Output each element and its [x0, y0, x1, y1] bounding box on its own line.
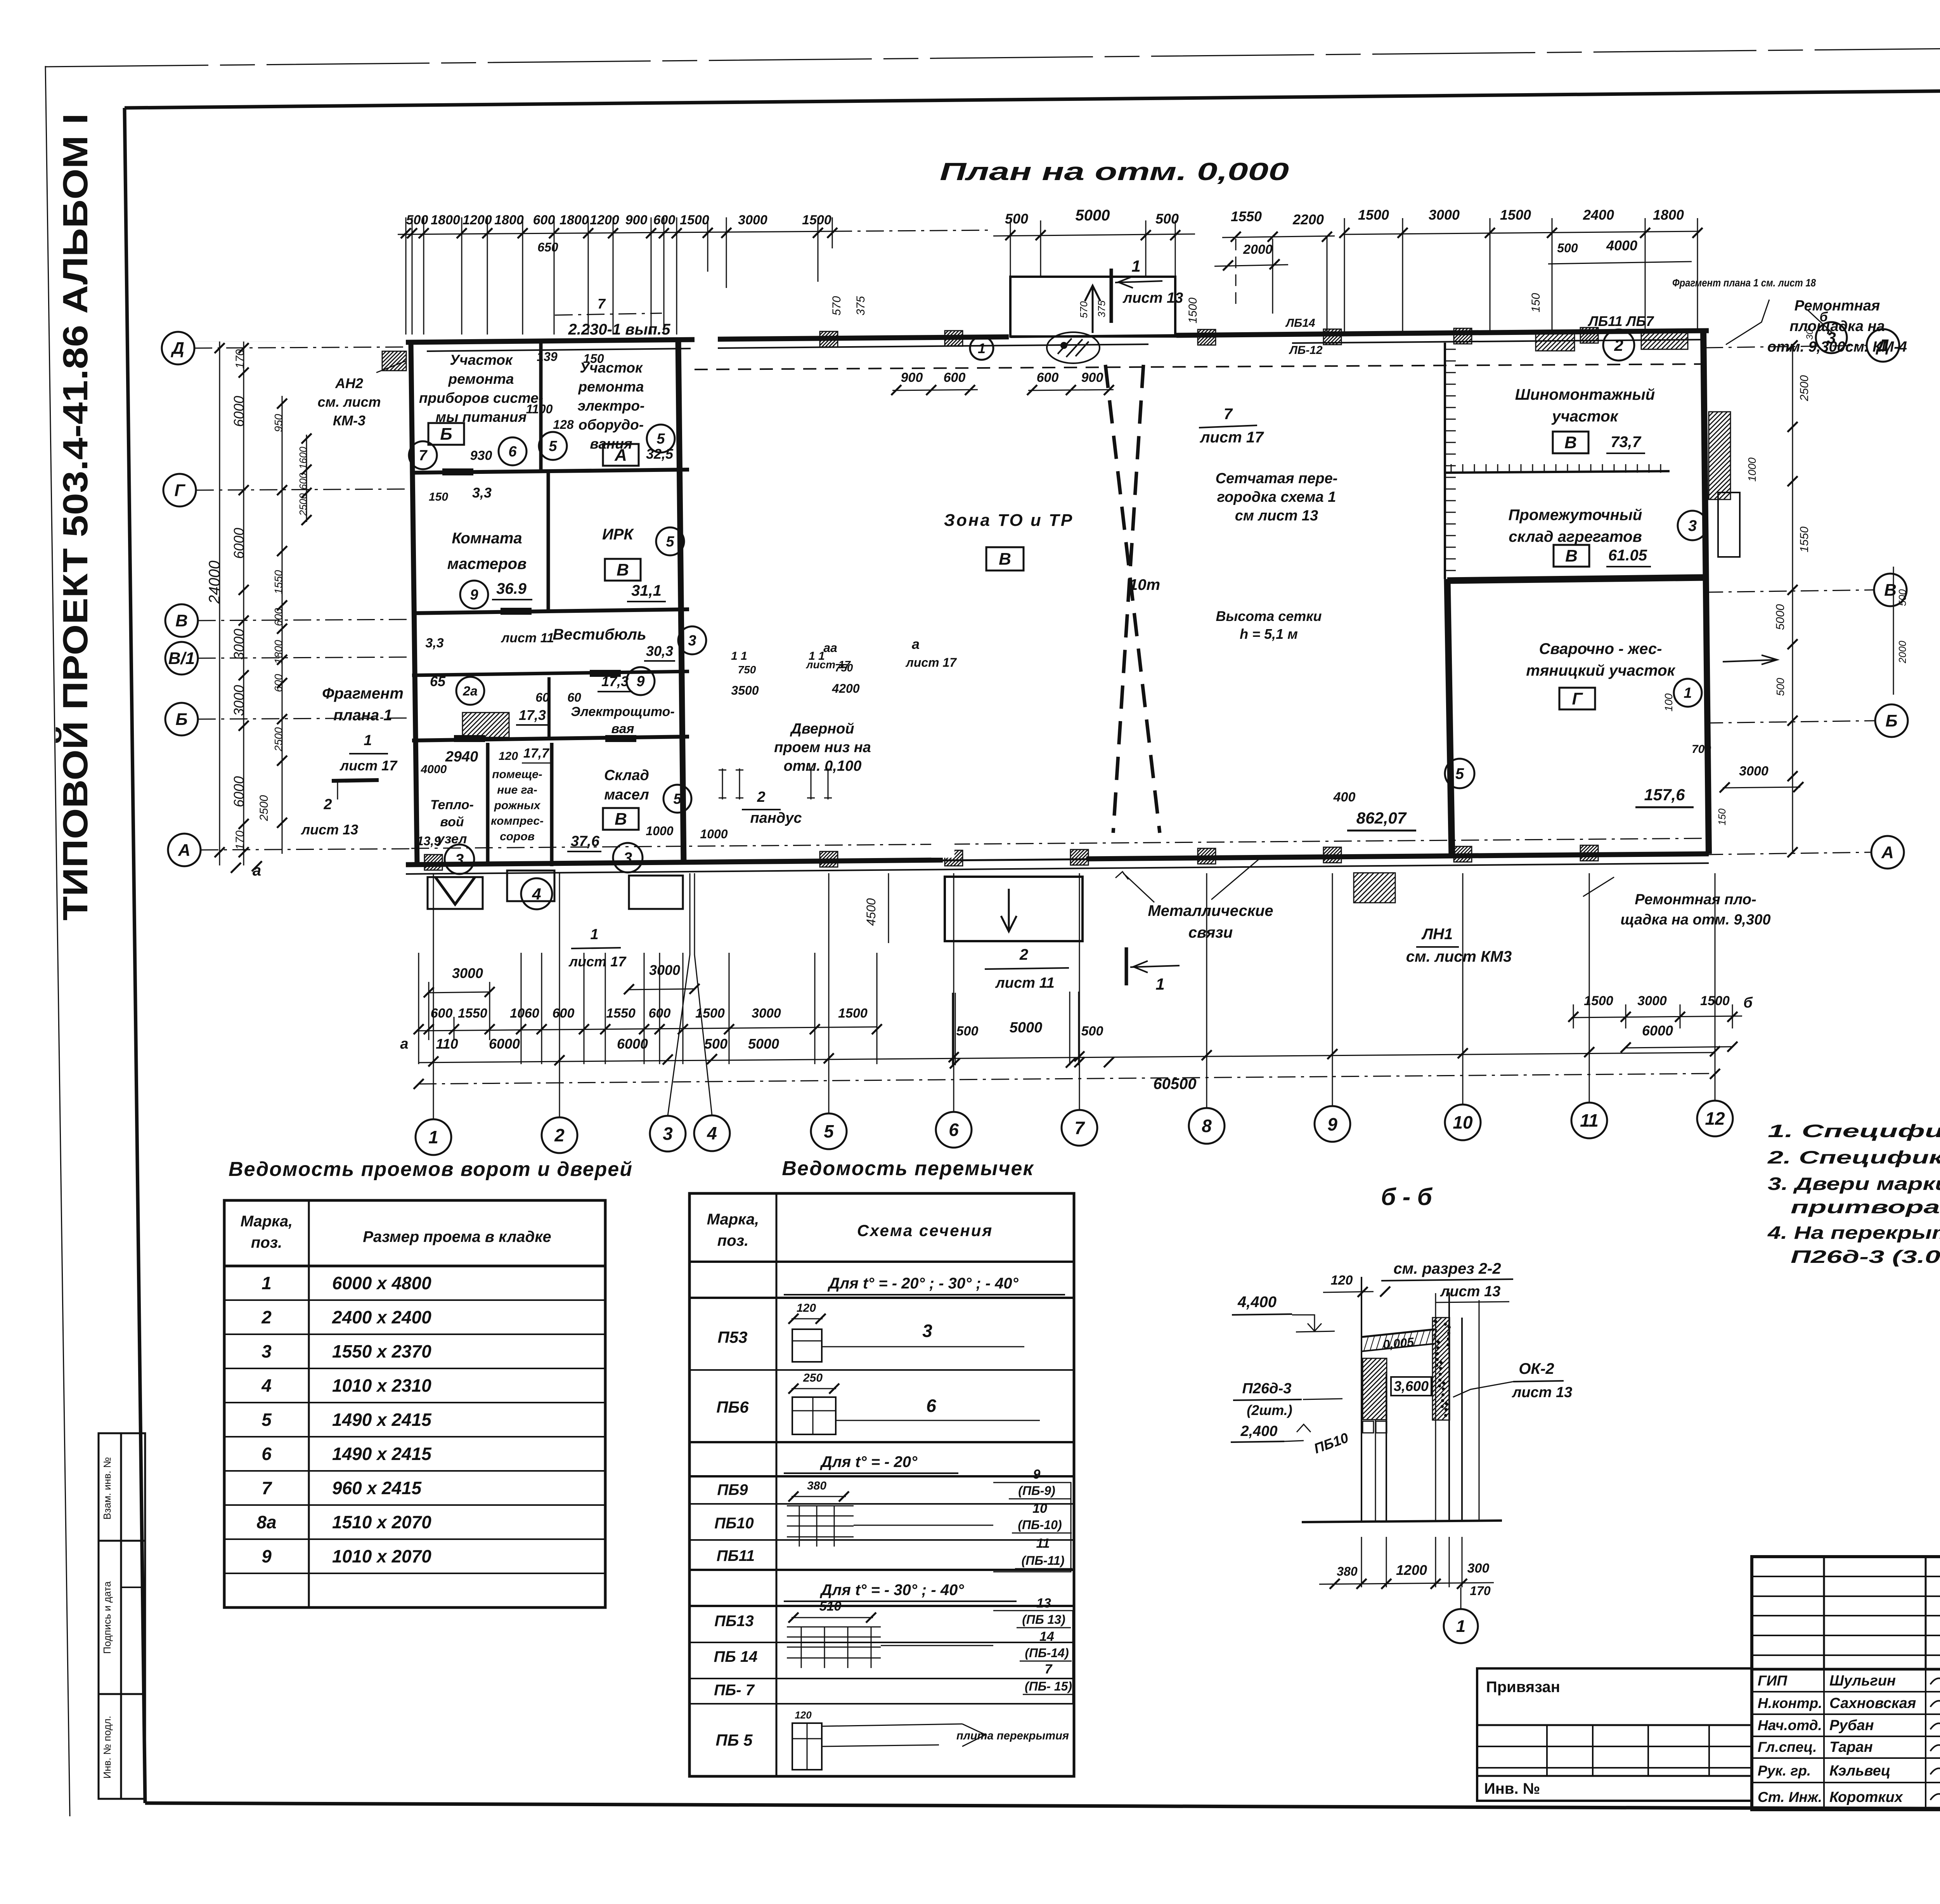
svg-text:9: 9: [1033, 1467, 1041, 1482]
svg-text:3: 3: [922, 1321, 932, 1341]
circle mark 2 top tambour: [1603, 329, 1634, 361]
svg-text:4: 4: [261, 1375, 272, 1396]
svg-text:В: В: [1564, 433, 1577, 452]
section slab sloped: [1361, 1329, 1436, 1337]
svg-text:1010 х 2070: 1010 х 2070: [332, 1546, 431, 1566]
axis 2 witness line: [559, 873, 560, 1117]
sheet outer edge top: [45, 43, 1940, 67]
svg-text:9: 9: [262, 1546, 272, 1566]
svg-text:Ремонтная: Ремонтная: [1794, 298, 1880, 314]
svg-text:электро-: электро-: [578, 398, 645, 414]
svg-text:Участок: Участок: [450, 352, 513, 368]
svg-text:950: 950: [272, 414, 284, 432]
right rooms vertical wall lower: [1447, 579, 1452, 857]
svg-text:б: б: [1743, 995, 1753, 1011]
admin wall axis V: [412, 609, 689, 613]
canopy arrow: [1092, 286, 1094, 333]
circle 3 vestibule: [678, 626, 706, 654]
svg-text:1500: 1500: [802, 213, 831, 227]
admin wall axis G: [412, 470, 689, 473]
bottom overall 60500 line: [419, 1073, 1715, 1084]
svg-text:б - б: б - б: [1381, 1184, 1432, 1210]
shinomontazhny box V: [1553, 432, 1588, 453]
svg-text:1500: 1500: [1358, 207, 1389, 223]
section wall hatched: [1432, 1318, 1450, 1420]
svg-text:Марка,: Марка,: [241, 1213, 293, 1230]
left axis ticks lines: [194, 341, 295, 342]
svg-text:1500: 1500: [695, 1006, 725, 1021]
svg-text:1000: 1000: [700, 827, 727, 841]
arrow right svarochny: [1723, 660, 1777, 662]
svg-text:1510 х 2070: 1510 х 2070: [332, 1512, 431, 1532]
svg-text:1200: 1200: [1396, 1562, 1427, 1578]
svg-text:рожных: рожных: [494, 799, 541, 812]
svg-text:60: 60: [567, 690, 581, 704]
svg-text:(ПБ- 15): (ПБ- 15): [1025, 1679, 1072, 1693]
svg-text:3: 3: [663, 1124, 673, 1144]
svg-text:1500: 1500: [1584, 994, 1613, 1008]
svg-text:930: 930: [470, 448, 492, 463]
grid axis 1 bottom circle: [416, 1119, 451, 1155]
svg-text:4. На перекрытие тамбура для t: 4. На перекрытие тамбура для t°- 40° нео…: [1767, 1223, 1940, 1243]
svg-text:1: 1: [262, 1273, 272, 1293]
axis 12 witness line: [1715, 873, 1716, 1101]
vestibule small vertical: [547, 677, 551, 740]
svg-text:1 1: 1 1: [731, 650, 747, 662]
svarochny box G: [1559, 688, 1595, 709]
section wall speckles: [1434, 1320, 1437, 1323]
svg-text:Кэльвец: Кэльвец: [1829, 1763, 1890, 1779]
circle mark 1 on axis D wall: [970, 336, 993, 360]
grid axis 10 bottom circle: [1445, 1105, 1481, 1140]
svg-text:П26д-3: П26д-3: [1242, 1380, 1292, 1397]
svg-text:Б: Б: [175, 710, 187, 729]
svg-text:ЛБ11 ЛБ7: ЛБ11 ЛБ7: [1587, 313, 1654, 329]
svg-text:30,3: 30,3: [646, 643, 673, 659]
svg-text:6: 6: [262, 1444, 272, 1464]
svg-text:1550: 1550: [458, 1006, 487, 1021]
svg-text:вая: вая: [611, 721, 634, 736]
svg-text:380: 380: [1337, 1564, 1358, 1578]
top tambour hatch left: [1536, 334, 1575, 351]
room box V irk: [605, 559, 641, 581]
svg-text:Рубан: Рубан: [1829, 1717, 1874, 1734]
axis А dash-dot line right: [1705, 852, 1871, 855]
table1 row line 4: [224, 1402, 605, 1403]
svg-text:1010 х 2310: 1010 х 2310: [332, 1375, 431, 1396]
svg-text:притворами и приборами: притворами и приборами для санозакрывани…: [1791, 1197, 1940, 1217]
bottom wall inner line: [406, 863, 1709, 874]
svg-text:1: 1: [1131, 257, 1140, 275]
title block main box: [1752, 1557, 1940, 1810]
svg-text:1550: 1550: [272, 570, 284, 594]
svg-text:оборудо-: оборудо-: [579, 417, 644, 433]
svg-text:2000: 2000: [1897, 641, 1908, 664]
svg-text:5: 5: [262, 1410, 272, 1430]
svg-text:(ПБ-11): (ПБ-11): [1022, 1554, 1065, 1568]
svg-text:1000: 1000: [1746, 457, 1758, 482]
svg-text:1800: 1800: [494, 213, 524, 227]
svg-text:60: 60: [535, 690, 549, 704]
svg-text:3: 3: [624, 850, 632, 867]
section witness below: [1361, 1537, 1362, 1587]
external rect platform right: [1718, 492, 1740, 557]
svg-text:2.230-1 вып.5: 2.230-1 вып.5: [568, 321, 671, 338]
svg-text:ПБ 14: ПБ 14: [714, 1648, 758, 1665]
svg-text:(ПБ-10): (ПБ-10): [1018, 1518, 1062, 1532]
svg-text:510: 510: [819, 1599, 842, 1614]
svg-text:ремонта: ремонта: [448, 371, 514, 387]
admin lower vertical 1: [486, 743, 490, 866]
svg-text:960 х 2415: 960 х 2415: [332, 1478, 422, 1498]
X bracing dashed (metal ties): [1105, 365, 1160, 833]
axis Б dash-dot line left: [198, 718, 411, 719]
doorways on admin walls: [442, 468, 473, 475]
svg-text:2: 2: [261, 1307, 272, 1327]
svg-text:5000: 5000: [1774, 604, 1787, 630]
svg-text:600: 600: [272, 608, 284, 626]
admin partition vertical masters/IRK: [547, 473, 550, 612]
svg-text:КМ-3: КМ-3: [333, 413, 365, 428]
svg-text:3000: 3000: [1429, 207, 1460, 223]
table2 row line: [689, 1539, 1074, 1541]
svg-text:150: 150: [1716, 808, 1728, 825]
svg-text:3,3: 3,3: [472, 485, 492, 501]
table2 row line: [689, 1605, 1074, 1607]
circle 5 hall bottom: [1445, 759, 1474, 788]
grid axis 3 bottom circle: [650, 1116, 686, 1151]
svg-text:(ПБ-14): (ПБ-14): [1025, 1646, 1069, 1660]
grid axis А left circle: [168, 834, 201, 866]
svg-text:ТИПОВОЙ ПРОЕКТ 503.4-41.86: ТИПОВОЙ ПРОЕКТ 503.4-41.86 АЛЬБОМ I: [55, 113, 95, 921]
exterior wall axis D (top): [406, 340, 695, 342]
svg-text:Взам. инв. №: Взам. инв. №: [101, 1457, 113, 1519]
svg-text:Инв. №: Инв. №: [1484, 1780, 1540, 1797]
svg-text:3: 3: [455, 851, 464, 868]
svg-text:157,6: 157,6: [1644, 786, 1685, 804]
svg-text:600: 600: [944, 370, 966, 385]
svg-text:900: 900: [901, 370, 923, 385]
svg-text:3,3: 3,3: [425, 636, 443, 650]
svg-text:500: 500: [704, 1036, 727, 1052]
svg-text:17,7: 17,7: [523, 746, 550, 761]
svg-text:600: 600: [431, 1006, 453, 1021]
svg-text:(ПБ 13): (ПБ 13): [1022, 1613, 1065, 1627]
top dimension witness lines: [405, 217, 407, 335]
top dimension line: [398, 231, 834, 234]
admin wall axis B: [412, 737, 689, 740]
svg-text:соров: соров: [500, 830, 535, 843]
bottom main dim line: [419, 1053, 1715, 1063]
svg-text:8а: 8а: [256, 1512, 276, 1532]
svg-text:6: 6: [926, 1396, 936, 1416]
circle 5 upper: [539, 432, 567, 460]
svg-text:1: 1: [428, 1127, 438, 1147]
svg-text:Схема сечения: Схема сечения: [857, 1221, 993, 1240]
table1 row line 7: [224, 1504, 605, 1506]
svg-text:2а: 2а: [462, 684, 478, 699]
svg-text:150: 150: [429, 491, 448, 503]
svg-text:5: 5: [673, 791, 682, 807]
svg-text:а: а: [912, 636, 920, 652]
admin partition upper vertical: [539, 342, 543, 470]
svg-text:1. Спецификацию на двер: 1. Спецификацию на двери см лист 2 .: [1768, 1121, 1940, 1141]
svg-text:2: 2: [757, 789, 765, 805]
svg-text:ПБ6: ПБ6: [716, 1398, 749, 1416]
svg-text:120: 120: [1331, 1273, 1353, 1288]
svg-text:600: 600: [533, 213, 555, 227]
svg-text:1: 1: [1155, 975, 1164, 993]
grid axis 9 bottom circle: [1315, 1106, 1350, 1142]
svg-text:Сахновская: Сахновская: [1829, 1695, 1916, 1712]
room box B: [428, 423, 464, 445]
sheet outer edge left: [45, 66, 70, 1816]
svg-text:Сварочно - жес-: Сварочно - жес-: [1539, 640, 1662, 657]
svg-text:1500: 1500: [1187, 297, 1199, 323]
grid axis В left circle: [165, 604, 198, 637]
table2 row line: [689, 1642, 1074, 1643]
svg-text:ПБ 5: ПБ 5: [716, 1731, 753, 1749]
svg-text:(2шт.): (2шт.): [1247, 1402, 1292, 1418]
svg-text:вой: вой: [440, 815, 464, 829]
hatch AN2 stair: [382, 351, 406, 371]
wall between sklad agregatov and svarochny: [1447, 577, 1706, 581]
porch left 2: [507, 870, 554, 901]
svg-text:приборов систе-: приборов систе-: [419, 390, 543, 406]
svg-text:60500: 60500: [1153, 1075, 1196, 1092]
circle 6: [499, 437, 527, 465]
svg-text:1: 1: [590, 926, 598, 943]
section mark 1 top: [1110, 269, 1113, 323]
svg-text:1490 х 2415: 1490 х 2415: [332, 1444, 432, 1464]
axis 10 witness line: [1462, 873, 1464, 1105]
svg-text:ОК-2: ОК-2: [1519, 1360, 1554, 1377]
canopy top centre: [1010, 277, 1175, 336]
svg-text:5000: 5000: [1010, 1020, 1043, 1036]
axis 8 witness line: [1206, 873, 1207, 1108]
svg-text:5: 5: [656, 431, 665, 447]
svg-text:2500: 2500: [258, 795, 270, 821]
svg-text:3000: 3000: [752, 1006, 781, 1021]
svg-text:5: 5: [549, 438, 557, 454]
svg-text:3. Двери марки 5,6,7,8а , 12 д: 3. Двери марки 5,6,7,8а , 12 должны быть…: [1768, 1174, 1940, 1194]
svg-text:1: 1: [1456, 1617, 1465, 1636]
bottom dim line 2: [419, 1027, 877, 1031]
axis Д dash-dot line right: [1705, 345, 1867, 348]
grid axis 6 bottom circle: [936, 1112, 972, 1148]
table1 row line 6: [224, 1470, 605, 1472]
svg-text:лист 13: лист 13: [301, 822, 358, 838]
grid axis Д right circle: [1867, 329, 1899, 362]
svg-text:7: 7: [419, 447, 428, 464]
grid axis 4 bottom circle: [694, 1115, 730, 1151]
svg-text:4200: 4200: [831, 681, 859, 695]
grid axis 2 bottom circle: [542, 1117, 577, 1153]
svg-text:37,6: 37,6: [571, 833, 600, 850]
svg-text:Тепло-: Тепло-: [430, 798, 474, 812]
mark 2a circle: [456, 677, 484, 705]
svg-text:1: 1: [364, 732, 372, 749]
svg-text:3000: 3000: [231, 629, 247, 660]
svg-text:Зона ТО и ТР: Зона ТО и ТР: [944, 511, 1074, 530]
hall top dashed line: [695, 364, 1705, 369]
svg-text:61.05: 61.05: [1608, 547, 1647, 564]
svg-text:проем низ на: проем низ на: [774, 739, 871, 756]
svg-text:6: 6: [508, 444, 517, 460]
svg-text:3000: 3000: [1637, 994, 1667, 1008]
section circle 1: [1460, 1587, 1462, 1609]
svg-text:1550: 1550: [1798, 526, 1811, 552]
svg-text:1490 х 2415: 1490 х 2415: [332, 1410, 432, 1430]
svg-text:2: 2: [1614, 336, 1623, 354]
svg-text:ГИП: ГИП: [1758, 1673, 1788, 1689]
svg-text:Ст. Инж.: Ст. Инж.: [1758, 1789, 1822, 1805]
axis 9 witness line: [1332, 873, 1333, 1106]
porch central arrow down: [1008, 889, 1010, 931]
svg-text:а: а: [400, 1036, 408, 1052]
svg-text:2000: 2000: [1243, 242, 1273, 257]
svg-text:0,005: 0,005: [1382, 1335, 1415, 1352]
left margin stamp column: [99, 1433, 145, 1799]
svg-text:2500: 2500: [1798, 375, 1811, 401]
svg-text:500: 500: [406, 213, 428, 227]
admin-hall boundary wall: [678, 340, 684, 864]
axis Д dash-dot line left: [194, 347, 411, 348]
svg-text:120: 120: [795, 1709, 812, 1721]
porch central large: [945, 877, 1083, 941]
svg-text:План на отм. 0,000: План на отм. 0,000: [940, 158, 1289, 186]
table2 row line: [689, 1569, 1074, 1571]
circle 9 mark: [460, 581, 488, 609]
svg-text:А: А: [1881, 843, 1894, 862]
svg-text:1500: 1500: [1700, 994, 1730, 1008]
axis 7 witness line: [1079, 873, 1080, 1110]
svg-text:5000: 5000: [1076, 207, 1110, 224]
table1 row line 8: [224, 1538, 605, 1540]
stair hatch vestibule: [462, 713, 509, 737]
right side dim chain: [1792, 345, 1793, 854]
svg-text:В: В: [1884, 581, 1897, 600]
svg-text:150: 150: [1529, 293, 1542, 312]
porch left 1 canopy: [435, 877, 475, 904]
circle 3 left bottom: [445, 844, 474, 874]
svg-text:помеще-: помеще-: [492, 768, 542, 781]
axis 4 witness line: [695, 873, 712, 1115]
svg-text:139: 139: [537, 350, 558, 364]
svg-text:Марка,: Марка,: [707, 1211, 759, 1228]
svg-text:В/1: В/1: [168, 649, 195, 668]
svg-text:щадка на отм. 9,300: щадка на отм. 9,300: [1620, 912, 1770, 928]
svg-text:1: 1: [1684, 685, 1692, 701]
svg-text:Фрагмент плана 1 см. лист 1: Фрагмент плана 1 см. лист 18: [1672, 277, 1816, 289]
svg-text:Г: Г: [1572, 689, 1583, 708]
admin lower vertical 2: [550, 743, 554, 866]
svg-text:(ПБ-9): (ПБ-9): [1018, 1484, 1055, 1498]
svg-text:7: 7: [598, 296, 606, 312]
svg-text:1550 х 2370: 1550 х 2370: [332, 1341, 431, 1361]
table2 row line: [689, 1261, 1074, 1263]
svg-text:4000: 4000: [421, 763, 447, 776]
svg-text:П26д-3 (3.006.1-2)82 вып. 0).: П26д-3 (3.006.1-2)82 вып. 0).: [1791, 1247, 1940, 1267]
svg-text:1060: 1060: [510, 1006, 539, 1021]
circle 5 irk: [656, 527, 684, 555]
svg-text:ПБ- 7: ПБ- 7: [714, 1682, 755, 1699]
svg-text:6: 6: [949, 1120, 959, 1140]
svg-text:Склад: Склад: [604, 767, 649, 784]
porch left 3: [629, 876, 683, 909]
svg-text:ние га-: ние га-: [497, 784, 537, 796]
svg-text:Фрагмент: Фрагмент: [322, 685, 404, 702]
svg-text:9: 9: [636, 673, 644, 690]
svg-text:17,3: 17,3: [601, 673, 629, 689]
svg-text:Сетчатая пере-: Сетчатая пере-: [1216, 470, 1338, 487]
table2 outer box: [689, 1193, 1074, 1776]
svg-text:128: 128: [553, 418, 574, 432]
svg-text:1500: 1500: [1500, 207, 1531, 223]
svg-text:750: 750: [738, 664, 756, 676]
grid axis 8 bottom circle: [1189, 1108, 1225, 1144]
svg-text:Для t° = - 30° ; - 40°: Для t° = - 30° ; - 40°: [820, 1581, 965, 1599]
right chain 2: [1893, 567, 1894, 695]
svg-text:Ведомость проемов ворот и двер: Ведомость проемов ворот и дверей: [229, 1158, 633, 1181]
svg-text:2: 2: [554, 1125, 565, 1145]
svg-text:17,3: 17,3: [519, 707, 546, 723]
svg-text:ПБ9: ПБ9: [717, 1481, 748, 1498]
svg-text:ПБ11: ПБ11: [717, 1547, 755, 1564]
table2 row line: [689, 1703, 1074, 1705]
svg-text:Шиномонтажный: Шиномонтажный: [1515, 386, 1655, 403]
svg-text:ремонта: ремонта: [578, 379, 644, 395]
mesh partition vertical (ladder): [1444, 343, 1446, 579]
svg-text:10: 10: [1032, 1501, 1047, 1516]
svg-text:120: 120: [499, 750, 518, 763]
svg-text:лист 13: лист 13: [1122, 290, 1183, 306]
left secondary dims: [282, 396, 283, 854]
svg-text:900: 900: [625, 213, 648, 227]
sklad box V: [1554, 545, 1589, 567]
svg-text:7: 7: [1045, 1662, 1053, 1677]
svg-text:3000: 3000: [1739, 764, 1769, 779]
svg-text:65: 65: [430, 673, 446, 689]
svg-text:склад агрегатов: склад агрегатов: [1509, 528, 1642, 545]
svg-text:7: 7: [1224, 406, 1233, 423]
section pier hatched: [1363, 1358, 1387, 1420]
svg-text:375: 375: [1096, 300, 1107, 317]
svg-text:ИРК: ИРК: [602, 526, 634, 543]
room box V sklad: [603, 808, 639, 830]
svg-text:2. Спецификацию перемычек: 2. Спецификацию перемычек см. лист· 18 .: [1767, 1147, 1940, 1167]
svg-text:8: 8: [1202, 1116, 1212, 1136]
svg-text:1550: 1550: [1231, 208, 1262, 224]
svg-text:1100: 1100: [526, 402, 553, 416]
svg-text:А: А: [178, 841, 191, 860]
table2 row line: [689, 1678, 1074, 1679]
svg-text:ЛН1: ЛН1: [1421, 926, 1453, 943]
svg-text:1200: 1200: [590, 213, 619, 227]
porch left 1: [428, 877, 483, 909]
title block signature rows: [1752, 1691, 1940, 1692]
grid axis Б right circle: [1875, 704, 1908, 737]
table2 row line: [689, 1503, 1074, 1505]
svg-text:Ведомость перемычек: Ведомость перемычек: [782, 1157, 1034, 1180]
svg-text:Б: Б: [440, 425, 452, 444]
svg-text:Металлические: Металлические: [1148, 902, 1273, 919]
svg-text:пандус: пандус: [750, 810, 802, 826]
svg-text:2400: 2400: [1583, 207, 1614, 223]
stair LN1 hatch: [1354, 873, 1395, 903]
title block attachment area privyazan: [1477, 1668, 1752, 1801]
table1 row line 3: [224, 1368, 605, 1369]
